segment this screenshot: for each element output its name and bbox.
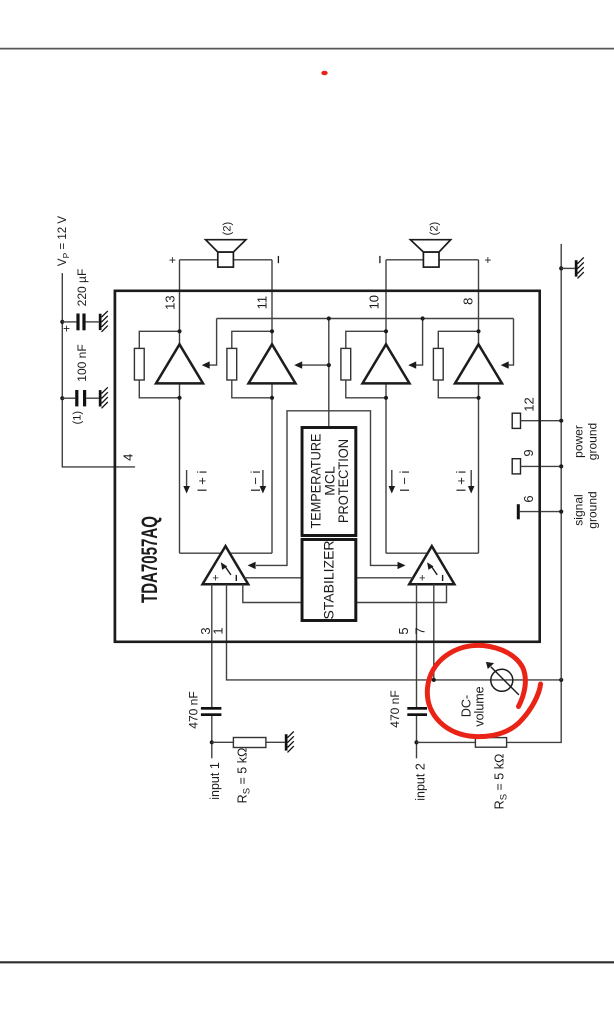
svg-text:PROTECTION: PROTECTION <box>335 439 351 523</box>
label LS2 minus <box>379 256 381 263</box>
label 220 uF <box>75 269 89 307</box>
label 470 nF left <box>187 691 201 728</box>
op-amp A4 <box>455 344 502 383</box>
wire supply rail left <box>62 273 135 467</box>
node pin9 rail <box>559 464 563 468</box>
label pin 1 <box>211 627 226 634</box>
label 100 nF <box>75 344 89 381</box>
label DC- <box>460 695 474 717</box>
arrow I-i left <box>260 470 267 494</box>
pin 9 resistor symbol <box>512 459 561 474</box>
label pin 7 <box>413 627 428 634</box>
ground G4 <box>285 731 294 752</box>
svg-text:(2): (2) <box>222 222 234 235</box>
svg-text:5: 5 <box>396 627 411 634</box>
node input2 <box>414 740 418 744</box>
ground G3 top right <box>561 257 584 278</box>
node supply-C1 <box>60 320 64 324</box>
label pin 12 <box>522 397 537 411</box>
svg-text:10: 10 <box>367 295 382 309</box>
svg-text:I − i: I − i <box>397 471 412 492</box>
label I+i right <box>454 471 469 492</box>
wire pin11 line <box>271 260 273 553</box>
label pin 11 <box>255 296 270 310</box>
svg-text:9: 9 <box>521 449 536 456</box>
label PROTECTION <box>335 439 351 523</box>
svg-text:ground: ground <box>586 423 600 460</box>
svg-text:13: 13 <box>163 295 178 309</box>
node supply-C2 <box>60 396 64 400</box>
svg-text:STABILIZER: STABILIZER <box>321 540 337 619</box>
svg-text:I + i: I + i <box>454 471 469 492</box>
label 470 nF right <box>388 690 402 727</box>
svg-text:100 nF: 100 nF <box>75 344 89 381</box>
svg-text:470 nF: 470 nF <box>388 690 402 727</box>
resistor RS1 <box>212 738 285 748</box>
node volume rail <box>559 678 563 682</box>
wire arrow into A1 <box>202 319 217 369</box>
svg-text:input 1: input 1 <box>208 762 222 800</box>
svg-text:+: + <box>169 253 176 267</box>
wire pin7 <box>433 584 435 680</box>
resistor R2 <box>227 331 272 398</box>
red marker circle around DC volume <box>427 645 540 736</box>
arrow into A5 <box>248 562 256 569</box>
node volume pin7 <box>432 678 436 682</box>
label RS1 <box>236 748 253 804</box>
wire arrow into A2 <box>294 361 329 368</box>
label I-i right <box>397 471 412 492</box>
stabilizer box border restroke <box>302 540 356 621</box>
wire pin8 line <box>478 260 480 553</box>
svg-text:11: 11 <box>255 296 270 310</box>
op-amp A2 <box>249 344 296 383</box>
potentiometer DC volume <box>486 662 519 695</box>
wire pin1 to volume bus <box>227 584 562 680</box>
label pin 5 <box>396 627 411 634</box>
svg-text:(1): (1) <box>72 411 84 424</box>
supply label VP = 12 V <box>57 216 71 266</box>
wire drive bus <box>217 318 514 320</box>
svg-text:8: 8 <box>461 298 476 305</box>
svg-text:7: 7 <box>413 627 428 634</box>
node A3 out <box>384 329 388 333</box>
wire ground rail right <box>560 244 562 680</box>
label pin 8 <box>461 298 476 305</box>
svg-text:power: power <box>572 425 586 458</box>
arrow into A6 <box>398 562 406 569</box>
svg-text:+: + <box>419 573 425 585</box>
label STABILIZER <box>321 540 337 619</box>
label TEMPERATURE <box>308 434 324 529</box>
svg-text:input 2: input 2 <box>414 763 428 801</box>
label (1) <box>72 411 84 424</box>
svg-text:signal: signal <box>572 494 586 525</box>
label pin 13 <box>163 295 178 309</box>
label volume <box>473 686 487 726</box>
svg-text:470 nF: 470 nF <box>187 691 201 728</box>
pin 6 terminal <box>517 504 561 519</box>
loudspeaker LS2 <box>386 240 479 267</box>
capacitor C1 220uF <box>62 314 99 331</box>
node A4 in <box>476 396 480 400</box>
top rule <box>0 48 614 50</box>
label RS2 <box>493 754 510 810</box>
wire A5 to stabilizer lower <box>243 584 302 602</box>
node A4 out <box>476 329 480 333</box>
temperature box border restroke <box>302 428 356 536</box>
ground G2 <box>99 387 108 408</box>
label pin 4 <box>121 454 136 461</box>
capacitor C4 470nF <box>407 707 427 716</box>
op-amp A6 input 2 <box>409 546 454 584</box>
svg-text:1: 1 <box>211 627 226 634</box>
label MCL <box>321 466 337 496</box>
arrow I+i right <box>468 470 475 494</box>
node bus A2 <box>327 316 331 320</box>
op-amp A5 input 1 <box>203 546 249 584</box>
svg-text:(2): (2) <box>429 222 441 235</box>
node A1 out <box>177 329 181 333</box>
label TDA7057AQ <box>137 516 162 603</box>
label I+i left <box>195 471 210 492</box>
IC box U1 TDA7057AQ <box>115 291 540 642</box>
wire bus right pair <box>386 552 479 554</box>
svg-text:+: + <box>63 322 70 336</box>
arrow I+i left <box>183 470 190 494</box>
resistor R3 <box>341 331 386 398</box>
node A2 in <box>270 396 274 400</box>
temperature protection box <box>302 428 356 536</box>
wire volume routing left <box>256 411 399 566</box>
ground G1 <box>99 311 108 332</box>
svg-text:VP = 12 V: VP = 12 V <box>57 216 71 266</box>
bottom rule <box>0 961 614 963</box>
svg-text:+: + <box>212 573 218 585</box>
resistor R1 <box>134 331 179 398</box>
op-amp A1 <box>156 344 203 383</box>
pin 12 resistor symbol <box>512 413 561 428</box>
svg-text:DC-: DC- <box>460 695 474 717</box>
svg-text:I − i: I − i <box>248 471 263 492</box>
wire A6 to stabilizer upper <box>356 577 413 579</box>
wire pin3 <box>211 584 213 758</box>
wire A6 to stabilizer lower <box>356 584 447 602</box>
resistor R4 <box>433 331 478 398</box>
node A3 in <box>384 396 388 400</box>
wire arrow into A3 <box>408 319 422 369</box>
label input 2 <box>414 763 428 801</box>
IC box U1 border restroke <box>115 291 540 642</box>
svg-text:+: + <box>484 253 491 267</box>
node bus A3 <box>421 316 425 320</box>
svg-text:12: 12 <box>522 397 537 411</box>
label pin 10 <box>367 295 382 309</box>
op-amp A3 <box>363 344 410 383</box>
capacitor C2 100nF <box>62 390 99 406</box>
wire protection to bus <box>328 319 330 427</box>
resistor RS2 <box>417 680 562 747</box>
loudspeaker LS1 <box>180 240 273 267</box>
label LS1 (2) <box>222 222 234 235</box>
label LS2 (2) <box>429 222 441 235</box>
svg-text:volume: volume <box>473 686 487 726</box>
capacitor C3 470nF <box>201 707 222 716</box>
wire arrow into A4 <box>501 319 514 369</box>
svg-text:6: 6 <box>521 495 536 502</box>
svg-text:4: 4 <box>121 454 136 461</box>
label power ground <box>572 423 600 460</box>
label pin 6 <box>521 495 536 502</box>
stabilizer box <box>302 540 356 621</box>
svg-text:220 µF: 220 µF <box>75 269 89 307</box>
wire pin10 line <box>385 260 387 553</box>
label LS1 minus <box>277 256 279 263</box>
node A1 in <box>177 396 181 400</box>
wire pin5 <box>416 584 418 758</box>
svg-text:ground: ground <box>586 491 600 528</box>
svg-text:TDA7057AQ: TDA7057AQ <box>137 516 162 603</box>
node A2 out <box>270 329 274 333</box>
wire A5 to stabilizer upper <box>244 577 302 579</box>
node pin6 rail <box>559 510 563 514</box>
arrow I-i right <box>389 470 396 494</box>
label I-i left <box>248 471 263 492</box>
label input 1 <box>208 762 222 800</box>
wire bus left pair <box>180 552 273 554</box>
node pin12 rail <box>559 419 563 423</box>
node rail top ground <box>559 266 563 270</box>
label pin 9 <box>521 449 536 456</box>
node arrow A2 <box>327 363 331 367</box>
svg-text:I + i: I + i <box>195 471 210 492</box>
label signal ground <box>572 491 600 528</box>
label pin 3 <box>198 627 213 634</box>
wire pin13 line <box>179 260 181 553</box>
red dot annotation <box>321 71 327 76</box>
node input1 <box>210 740 214 744</box>
